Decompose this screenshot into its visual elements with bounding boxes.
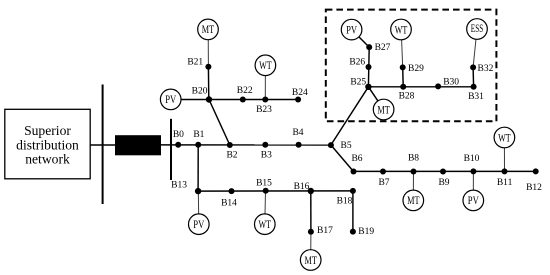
svg-text:MT: MT bbox=[377, 104, 389, 116]
feeder bus bar bbox=[170, 119, 172, 180]
node B20 bbox=[206, 96, 212, 102]
svg-text:network: network bbox=[25, 152, 70, 167]
node B11 bbox=[502, 168, 508, 174]
microgrid dashed box bbox=[326, 10, 497, 122]
wire B8 to MT bbox=[412, 172, 414, 201]
svg-text:B2: B2 bbox=[226, 150, 237, 160]
svg-text:WT: WT bbox=[259, 60, 272, 72]
svg-text:B29: B29 bbox=[408, 64, 424, 74]
wire WT to B23 bbox=[264, 65, 266, 99]
svg-text:B14: B14 bbox=[221, 198, 237, 208]
generator PV left bbox=[160, 89, 181, 110]
node B12 bbox=[533, 168, 539, 174]
node B24 bbox=[295, 97, 301, 103]
svg-text:B4: B4 bbox=[292, 128, 303, 138]
node B14 bbox=[229, 188, 235, 194]
node B28 bbox=[400, 84, 406, 90]
wire B16 to B17 bbox=[310, 191, 312, 232]
wire ESS to B32 bbox=[473, 29, 477, 67]
generator MT lower right bbox=[403, 190, 424, 211]
generator MT top bbox=[198, 19, 219, 40]
node B4 bbox=[296, 142, 302, 148]
wire B18 to B19 bbox=[352, 191, 354, 232]
svg-text:WT: WT bbox=[498, 132, 511, 144]
node B17 bbox=[308, 229, 314, 235]
node B0 bbox=[175, 142, 181, 148]
svg-text:B9: B9 bbox=[438, 178, 449, 188]
node B10 bbox=[470, 168, 476, 174]
generator WT upper bbox=[255, 55, 276, 76]
generator WT lower bbox=[254, 214, 275, 235]
node B5 bbox=[328, 142, 334, 148]
svg-text:MT: MT bbox=[407, 195, 419, 207]
svg-text:B20: B20 bbox=[192, 86, 208, 96]
node B9 bbox=[440, 169, 446, 175]
svg-text:B8: B8 bbox=[408, 154, 419, 164]
wire B1 to B13 bbox=[197, 145, 199, 191]
generator MT microgrid bbox=[373, 99, 394, 120]
svg-text:B16: B16 bbox=[294, 182, 310, 192]
svg-text:B27: B27 bbox=[375, 43, 391, 53]
svg-text:B28: B28 bbox=[399, 92, 415, 102]
wire WT to B29 bbox=[401, 30, 403, 68]
svg-text:MT: MT bbox=[305, 255, 317, 267]
svg-text:B3: B3 bbox=[261, 150, 272, 160]
svg-text:WT: WT bbox=[259, 219, 272, 231]
svg-text:B10: B10 bbox=[464, 154, 480, 164]
svg-text:B32: B32 bbox=[478, 64, 494, 74]
node B18 bbox=[350, 188, 356, 194]
svg-text:B15: B15 bbox=[256, 178, 272, 188]
svg-text:B13: B13 bbox=[171, 181, 187, 191]
svg-text:B18: B18 bbox=[337, 197, 353, 207]
wire B20 to B24 bbox=[209, 99, 298, 101]
wire PV to B27 bbox=[352, 30, 370, 47]
svg-text:MT: MT bbox=[202, 24, 214, 36]
node B6 bbox=[351, 169, 357, 175]
svg-text:B21: B21 bbox=[187, 58, 203, 68]
svg-text:PV: PV bbox=[468, 195, 480, 207]
main grid bus bar bbox=[102, 85, 104, 205]
node B31 bbox=[471, 84, 477, 90]
svg-text:PV: PV bbox=[346, 24, 358, 36]
svg-text:B17: B17 bbox=[317, 226, 333, 236]
svg-text:PV: PV bbox=[165, 94, 177, 106]
storage ESS bbox=[467, 19, 488, 40]
wire B6 to B12 bbox=[354, 170, 536, 172]
wire B11 to WT bbox=[503, 138, 505, 172]
svg-text:B22: B22 bbox=[237, 86, 253, 96]
node B27 bbox=[366, 44, 372, 50]
svg-text:PV: PV bbox=[193, 219, 205, 231]
svg-text:B11: B11 bbox=[497, 178, 513, 188]
svg-text:distribution: distribution bbox=[16, 137, 79, 152]
svg-text:B23: B23 bbox=[256, 105, 272, 115]
node B13 bbox=[195, 188, 201, 194]
node B25 bbox=[365, 84, 371, 90]
svg-text:B30: B30 bbox=[443, 77, 459, 87]
wire B2 to B20 bbox=[209, 100, 230, 146]
wire B25 to B31 bbox=[368, 86, 473, 88]
node B3 bbox=[262, 142, 268, 148]
svg-text:B5: B5 bbox=[341, 141, 352, 151]
svg-text:B25: B25 bbox=[350, 78, 366, 88]
wire B20 to B21 bbox=[207, 67, 209, 100]
svg-text:B1: B1 bbox=[193, 130, 204, 140]
wire B15 to WT bbox=[264, 191, 267, 224]
node B29 bbox=[400, 64, 406, 70]
wire B13 to B18 bbox=[198, 190, 353, 192]
generator WT microgrid bbox=[391, 19, 412, 40]
node B23 bbox=[262, 97, 268, 103]
node B16 bbox=[308, 188, 314, 194]
svg-text:Superior: Superior bbox=[24, 123, 71, 138]
svg-text:WT: WT bbox=[395, 24, 408, 36]
node B26 bbox=[366, 64, 372, 70]
transformer bbox=[115, 135, 161, 155]
generator PV lower right bbox=[463, 190, 484, 211]
node B2 bbox=[227, 142, 233, 148]
node B15 bbox=[263, 188, 269, 194]
wire PV to B20 bbox=[171, 99, 209, 101]
wire B27 to B26 to B25 bbox=[367, 47, 370, 87]
svg-text:B24: B24 bbox=[292, 88, 308, 98]
svg-text:B19: B19 bbox=[358, 227, 374, 237]
svg-text:ESS: ESS bbox=[471, 23, 483, 35]
superior distribution network box bbox=[5, 109, 90, 179]
wire B29 to B28 bbox=[402, 67, 405, 86]
svg-text:B26: B26 bbox=[349, 57, 365, 67]
svg-text:B0: B0 bbox=[173, 130, 184, 140]
wire B10 to PV bbox=[472, 171, 474, 200]
wire B21 to MT bbox=[207, 29, 209, 66]
wire B25 to MT bbox=[368, 87, 383, 110]
generator PV microgrid bbox=[341, 19, 362, 40]
svg-text:B7: B7 bbox=[378, 178, 389, 188]
wire B13 to PV bbox=[197, 191, 200, 224]
generator PV lower left bbox=[189, 214, 210, 235]
node B8 bbox=[411, 169, 417, 175]
node B32 bbox=[470, 64, 476, 70]
generator MT bottom bbox=[300, 250, 321, 271]
wire B5 to B25 bbox=[331, 87, 369, 145]
node B22 bbox=[240, 97, 246, 103]
generator WT right bbox=[494, 127, 515, 148]
wire B32 to B31 bbox=[472, 67, 475, 86]
wire B5 to B6 bbox=[331, 145, 354, 172]
svg-text:B6: B6 bbox=[351, 154, 362, 164]
wire box to transformer bbox=[90, 144, 115, 146]
node B1 bbox=[195, 142, 201, 148]
node B7 bbox=[380, 169, 386, 175]
wire B17 to MT bbox=[310, 232, 312, 260]
node B30 bbox=[435, 83, 441, 89]
node B21 bbox=[205, 64, 211, 70]
svg-text:B12: B12 bbox=[526, 183, 542, 193]
node B19 bbox=[350, 229, 356, 235]
svg-text:B31: B31 bbox=[468, 92, 484, 102]
wire main feeder B0-B5 bbox=[161, 144, 331, 146]
